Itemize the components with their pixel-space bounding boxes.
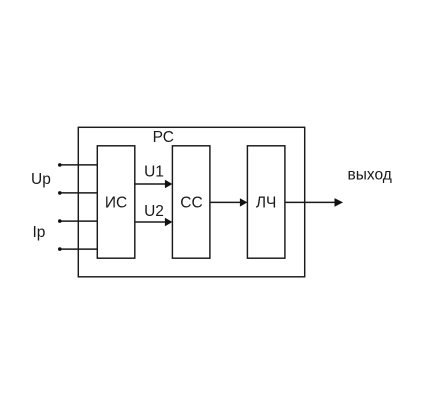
wire input 2 (Up lower) [60, 192, 98, 194]
wire СС to ЛЧ [210, 201, 241, 203]
svg-text:СС: СС [180, 194, 202, 211]
wire input 4 (Ip lower) [60, 248, 98, 250]
wire output выход [285, 201, 335, 203]
svg-text:ЛЧ: ЛЧ [256, 194, 277, 211]
wire U1: ИС to СС [135, 183, 166, 185]
arrowhead U2 into СС [165, 218, 173, 226]
block ЛЧ [247, 146, 285, 258]
block СС [172, 146, 210, 258]
svg-text:U2: U2 [144, 203, 164, 220]
wire input 1 (Up upper) [60, 164, 98, 166]
node terminal 2 [58, 191, 62, 195]
svg-text:РС: РС [153, 129, 174, 146]
svg-text:выход: выход [348, 166, 392, 183]
wire U2: ИС to СС [135, 221, 166, 223]
svg-text:U1: U1 [144, 164, 164, 181]
node terminal 4 [58, 247, 62, 251]
block ИС [97, 146, 135, 258]
svg-text:ИС: ИС [105, 194, 127, 211]
arrowhead into ЛЧ [240, 198, 248, 206]
node terminal 1 [58, 163, 62, 167]
enclosure box РС [78, 127, 304, 276]
arrowhead output [335, 198, 344, 207]
node terminal 3 [58, 219, 62, 223]
arrowhead U1 into СС [165, 180, 173, 188]
svg-text:Ip: Ip [33, 224, 46, 241]
svg-text:Up: Up [31, 171, 51, 188]
wire input 3 (Ip upper) [60, 220, 98, 222]
